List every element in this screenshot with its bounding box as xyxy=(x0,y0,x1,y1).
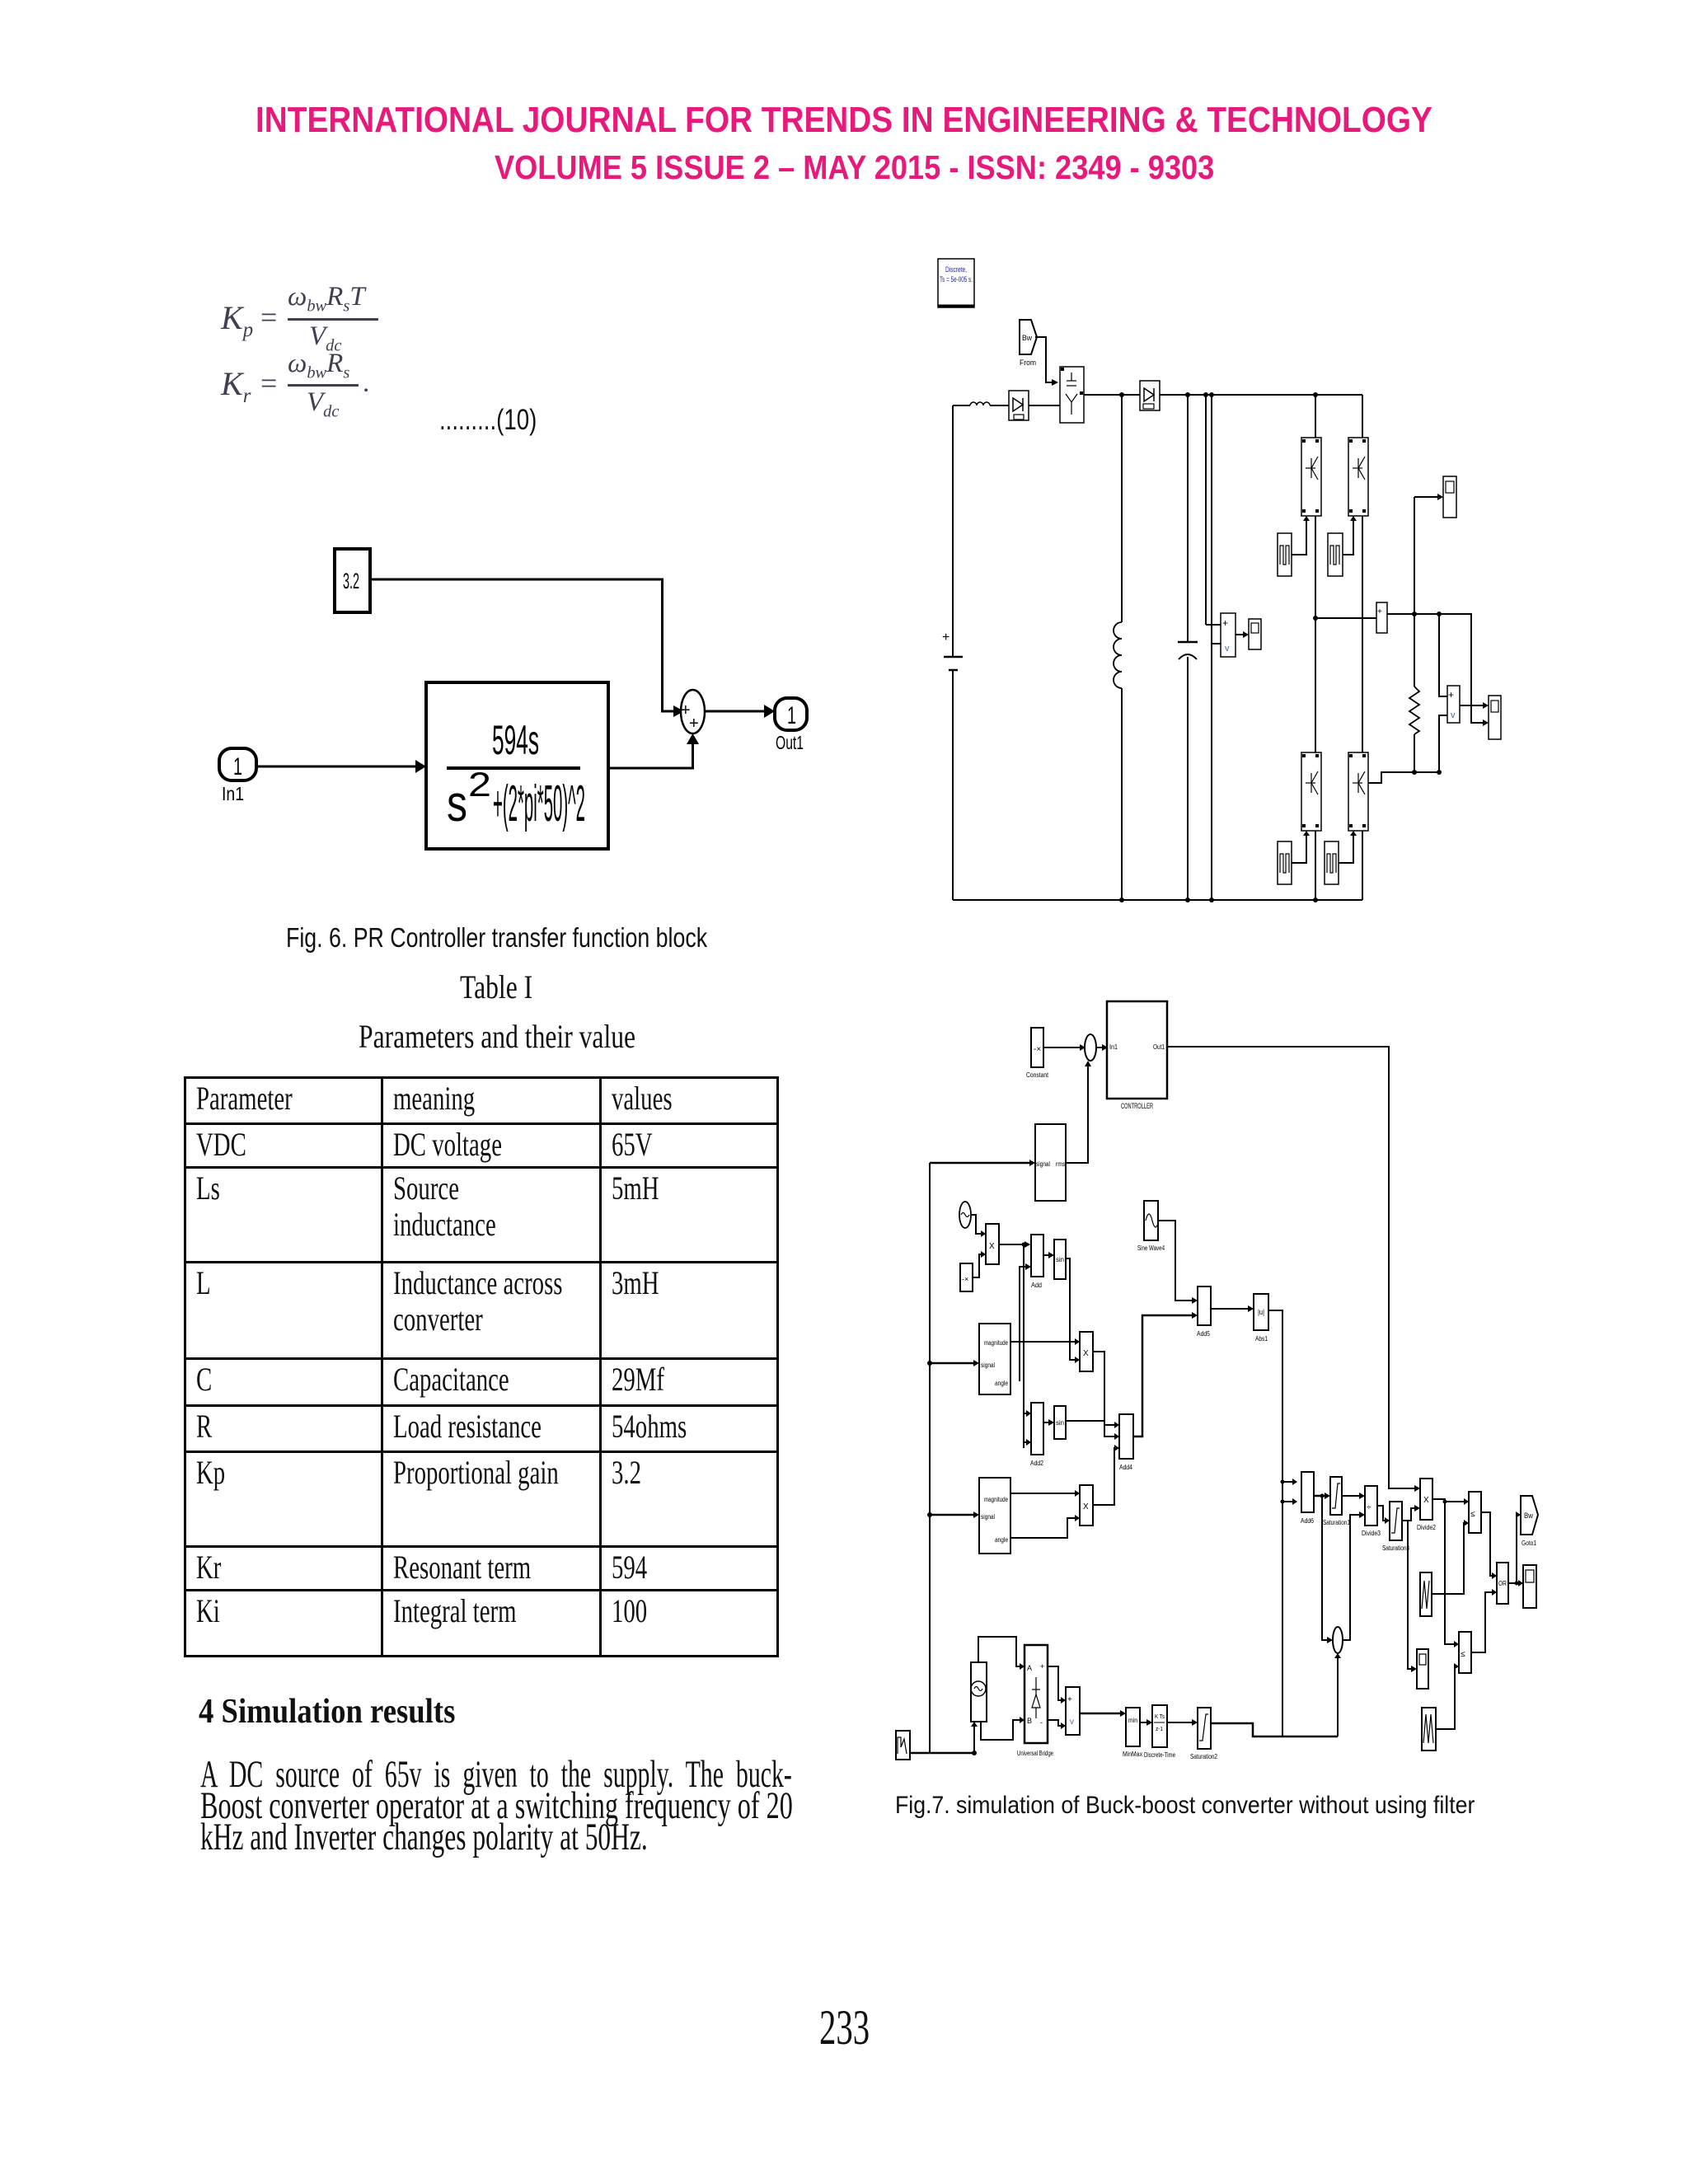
top rail wire xyxy=(1084,394,1362,396)
header line 2 xyxy=(495,151,1310,185)
bottom wire from input port xyxy=(910,1752,974,1755)
feedback branch down to sum2 xyxy=(1322,1496,1327,1640)
goto tag Bw xyxy=(1521,1496,1538,1547)
minmax block xyxy=(1123,1708,1142,1758)
wire From to mosfet gate xyxy=(1035,337,1052,382)
load resistor R xyxy=(1409,687,1419,734)
svg-text:2: 2 xyxy=(468,765,491,804)
svg-text:Saturation2: Saturation2 xyxy=(1190,1753,1217,1760)
pulse generator PG1 xyxy=(1278,533,1292,576)
sine wave4 block xyxy=(1137,1201,1165,1252)
svg-text:≤: ≤ xyxy=(1470,1510,1475,1519)
add1 block xyxy=(1031,1235,1043,1289)
current measurement block xyxy=(1376,602,1387,633)
page number xyxy=(819,2003,893,2052)
svg-text:MinMax: MinMax xyxy=(1123,1750,1142,1758)
wire product2 to add4 xyxy=(1093,1352,1114,1425)
wire from constant 3.2 to sum xyxy=(370,579,673,711)
scope1 xyxy=(1249,619,1261,649)
wire add6 to saturation1 xyxy=(1314,1495,1325,1497)
svg-text:z-1: z-1 xyxy=(1156,1727,1163,1732)
svg-text:A: A xyxy=(1027,1664,1032,1672)
wire vmeas2 minus branch xyxy=(1439,715,1447,772)
voltage measurement block V3 xyxy=(1066,1687,1080,1735)
igbt top-left xyxy=(1301,438,1321,516)
svg-text:Add: Add xyxy=(1031,1282,1042,1289)
wire sine wave4 to add5 xyxy=(1158,1221,1192,1301)
wire angle1 up to add1 xyxy=(1020,1267,1025,1381)
wire PG3 to igbt gate xyxy=(1292,836,1306,863)
svg-text:In1: In1 xyxy=(222,783,244,804)
OR block xyxy=(1497,1563,1508,1604)
wire divide3 to saturation3 xyxy=(1377,1506,1385,1521)
repeating sequence source 2 xyxy=(1422,1708,1436,1750)
igbt bottom-left xyxy=(1301,752,1321,831)
Fig 7 caption xyxy=(895,1793,1548,1818)
CONTROLLER block xyxy=(1107,1001,1167,1110)
wire rms to sum bottom xyxy=(1066,1066,1088,1163)
Fig 7 upper circuit (buck-boost + inverter power stage) xyxy=(890,247,1624,915)
wire relational1 down to OR xyxy=(1481,1512,1492,1576)
wire abs down the long vertical xyxy=(1268,1310,1282,1736)
wire saturation3 to divide2 xyxy=(1402,1508,1414,1521)
svg-text:Ts = 5e-005 s.: Ts = 5e-005 s. xyxy=(940,275,973,284)
svg-text:signal: signal xyxy=(1036,1160,1050,1168)
divide3 block xyxy=(1362,1486,1381,1537)
header line 1 xyxy=(256,102,1592,138)
scope2 top right xyxy=(1443,476,1456,518)
svg-text:Add6: Add6 xyxy=(1301,1517,1314,1525)
output port Out1 xyxy=(775,698,807,730)
discrete-time integrator block xyxy=(1144,1705,1175,1759)
add6 block xyxy=(1301,1472,1314,1525)
wire rail corner to igbt top-right xyxy=(1362,395,1363,438)
saturation1 block xyxy=(1323,1477,1350,1526)
svg-text:-: - xyxy=(1040,1718,1043,1727)
wire rail to rms input xyxy=(930,1162,1029,1165)
svg-text:Saturation3: Saturation3 xyxy=(1382,1544,1409,1552)
add2 block xyxy=(1030,1403,1043,1467)
stubs into add2 xyxy=(1024,1413,1026,1414)
magnitude-angle block 2 xyxy=(979,1478,1010,1554)
wire relational2 to OR bottom input xyxy=(1471,1592,1492,1652)
pulse generator PG2 xyxy=(1328,533,1343,576)
relational1 block xyxy=(1469,1492,1481,1533)
series diode D2 on rail xyxy=(1140,381,1160,410)
voltage measurement block V2 xyxy=(1447,686,1460,723)
igbt bottom-right xyxy=(1348,752,1368,831)
svg-text:Sine Wave4: Sine Wave4 xyxy=(1137,1244,1165,1252)
wire PG1 to igbt gate xyxy=(1292,521,1306,555)
svg-text:+: + xyxy=(1222,617,1228,629)
dc source battery xyxy=(942,405,963,900)
wire rail to igbt top-left xyxy=(1315,395,1316,438)
svg-text:signal: signal xyxy=(981,1361,995,1369)
sin1 block xyxy=(1054,1240,1066,1279)
From tag Bw xyxy=(1020,320,1037,367)
equation Kp xyxy=(221,298,253,342)
svg-text:-×: -× xyxy=(1034,1045,1041,1054)
svg-text:1: 1 xyxy=(787,702,796,729)
h-bridge right leg xyxy=(1362,516,1363,752)
stubs into add6 xyxy=(1282,1481,1292,1483)
series diode D1 xyxy=(1009,391,1029,420)
wire to scope2 top xyxy=(1414,496,1437,498)
svg-text:-×: -× xyxy=(962,1275,968,1283)
wire sum to controller xyxy=(1096,1047,1102,1048)
svg-text:Constant: Constant xyxy=(1026,1071,1049,1079)
wire sin2 to add4 xyxy=(1066,1421,1114,1436)
svg-text:sin: sin xyxy=(1056,1419,1064,1427)
svg-text:1: 1 xyxy=(233,753,242,780)
svg-text:Add2: Add2 xyxy=(1030,1460,1043,1467)
equation Kr xyxy=(221,364,251,408)
wire sum to Out1 xyxy=(705,710,764,713)
repeating sequence source 1 xyxy=(1420,1572,1432,1616)
wire sum2 up to divide3 second input xyxy=(1343,1515,1359,1640)
svg-text:X: X xyxy=(989,1242,995,1251)
wire angle2 to product3 xyxy=(1010,1518,1075,1538)
svg-text:÷: ÷ xyxy=(1367,1503,1371,1512)
load rail vertical xyxy=(1414,497,1415,687)
svg-text:X: X xyxy=(1083,1349,1089,1358)
input port In1 xyxy=(219,748,256,780)
paragraph line 2 xyxy=(200,1787,1065,1825)
saturation2 block xyxy=(1190,1708,1217,1760)
wire minmax to discrete-time xyxy=(1140,1722,1146,1723)
wire PG4 to igbt gate xyxy=(1339,836,1353,863)
svg-text:Add5: Add5 xyxy=(1197,1330,1210,1338)
product2 block xyxy=(1080,1332,1093,1371)
svg-text:v: v xyxy=(1225,644,1230,654)
wire rail to magnitude1 xyxy=(930,1362,973,1365)
sin2 block xyxy=(1054,1406,1066,1439)
constant2 block xyxy=(960,1263,973,1291)
shunt capacitor branch xyxy=(1178,395,1198,900)
svg-text:Bw: Bw xyxy=(1524,1511,1533,1520)
scope5 block xyxy=(1417,1649,1428,1689)
svg-text:min: min xyxy=(1128,1717,1137,1724)
wire product3 to add4 bottom xyxy=(1093,1448,1117,1505)
divide2 block xyxy=(1417,1479,1436,1531)
sum block xyxy=(681,690,705,733)
pulse generator PG3 xyxy=(1278,841,1292,884)
sine source circle xyxy=(959,1202,971,1228)
Fig 6 caption xyxy=(286,924,806,951)
junction dots xyxy=(1119,392,1442,902)
product3 block xyxy=(1080,1485,1093,1526)
wire current meas output node xyxy=(1387,614,1483,723)
svg-text:Out1: Out1 xyxy=(1153,1043,1165,1051)
transfer function block xyxy=(426,682,608,849)
wire constant2 to product1 xyxy=(973,1254,981,1277)
svg-text:X: X xyxy=(1423,1496,1429,1505)
constant block 3.2 xyxy=(335,549,370,612)
powergui block xyxy=(938,259,974,307)
magnitude-angle block 1 xyxy=(979,1324,1010,1394)
section heading xyxy=(199,1694,492,1729)
wire sin1 down to product2 xyxy=(1066,1258,1075,1360)
universal bridge block xyxy=(1017,1645,1053,1757)
svg-text:signal: signal xyxy=(981,1513,995,1521)
wire PG2 to igbt gate xyxy=(1343,521,1353,555)
wire discrete-time to saturation2 xyxy=(1167,1722,1192,1723)
svg-text:Goto1: Goto1 xyxy=(1522,1540,1536,1547)
wire divide2 output node xyxy=(1432,1499,1454,1644)
wire bridge plus to vmeas3 xyxy=(1048,1666,1061,1700)
svg-text:v: v xyxy=(1070,1718,1074,1727)
svg-text:+: + xyxy=(1448,689,1454,701)
load bottom wire xyxy=(1368,772,1439,783)
svg-text:sin: sin xyxy=(1056,1256,1064,1263)
svg-text:Bw: Bw xyxy=(1022,334,1032,342)
wire add2 to sin2 xyxy=(1043,1422,1048,1423)
svg-text:magnitude: magnitude xyxy=(984,1496,1008,1503)
wire transfer function to sum (bottom input) xyxy=(608,744,693,768)
svg-text:v: v xyxy=(1451,710,1456,720)
mosfet block xyxy=(1060,367,1084,423)
svg-text:Universal Bridge: Universal Bridge xyxy=(1017,1750,1053,1757)
svg-text:3.2: 3.2 xyxy=(343,569,359,593)
voltage measurement block V1 xyxy=(1221,613,1236,657)
abs block xyxy=(1254,1294,1268,1343)
wire In1 to transfer function xyxy=(256,766,415,768)
svg-text:OR: OR xyxy=(1498,1580,1507,1587)
svg-text:Out1: Out1 xyxy=(776,732,804,753)
wire bridge minus to vmeas3 xyxy=(1048,1720,1061,1726)
scope3 right xyxy=(1489,696,1501,739)
wire add4 up to add5 xyxy=(1133,1315,1192,1436)
igbt bottoms to bottom rail xyxy=(1315,831,1316,900)
igbt top-right xyxy=(1348,438,1368,516)
svg-text:≤: ≤ xyxy=(1461,1650,1465,1659)
svg-text:+: + xyxy=(1040,1662,1044,1671)
add4 block xyxy=(1119,1414,1133,1471)
pulse generator PG4 xyxy=(1325,841,1339,884)
scope5 tap wire xyxy=(1408,1521,1411,1669)
sum block S1 xyxy=(1085,1034,1096,1061)
paragraph line 1 xyxy=(200,1755,1132,1794)
wire constant to sum xyxy=(1043,1047,1080,1048)
svg-text:Abs1: Abs1 xyxy=(1255,1335,1268,1343)
wire rail to magnitude2 xyxy=(930,1514,973,1516)
svg-text:s: s xyxy=(447,776,467,832)
wire bottom rail up into sum2 xyxy=(1337,1658,1339,1736)
wire saturation2 along bottom to sum2 xyxy=(1211,1723,1338,1736)
ac source block xyxy=(971,1662,987,1722)
wire ac source to bridge B xyxy=(981,1720,1020,1740)
wire magnitude2 to product3 xyxy=(1010,1493,1075,1494)
voltage measurement branch wires xyxy=(1206,395,1221,900)
rms block xyxy=(1035,1124,1066,1201)
sum2 block xyxy=(1333,1627,1343,1653)
wire product1 to add1 and long branch down xyxy=(999,1244,1024,1448)
wire V2 to scope3 xyxy=(1460,705,1483,706)
series inductor Ls xyxy=(953,402,1009,405)
wire OR to scope6 xyxy=(1517,1582,1518,1584)
Table I title xyxy=(460,971,552,1004)
svg-text:Divide3: Divide3 xyxy=(1362,1530,1381,1537)
svg-text:magnitude: magnitude xyxy=(984,1339,1008,1347)
wire controller output to divide2 xyxy=(1167,1047,1414,1488)
svg-text:|u|: |u| xyxy=(1258,1308,1264,1316)
wire OR to goto tag xyxy=(1508,1515,1517,1583)
svg-text:In1: In1 xyxy=(1109,1043,1118,1051)
wire add5 to abs xyxy=(1211,1308,1248,1310)
svg-text:594s: 594s xyxy=(492,717,539,763)
svg-text:angle: angle xyxy=(995,1380,1008,1387)
wire repseq2 to relational2 xyxy=(1436,1666,1456,1729)
wire V1 to scope1 xyxy=(1236,634,1243,635)
paragraph line 3 xyxy=(200,1818,868,1857)
add5 block xyxy=(1197,1286,1211,1338)
wire bridge left leg to current measurement xyxy=(1315,617,1376,619)
wire repseq1 to relational1 xyxy=(1432,1523,1465,1594)
svg-text:Divide2: Divide2 xyxy=(1417,1524,1436,1531)
left rail vertical xyxy=(929,1163,931,1753)
svg-text:Discrete,: Discrete, xyxy=(945,265,967,274)
svg-text:Saturation1: Saturation1 xyxy=(1323,1519,1350,1526)
svg-text:rms: rms xyxy=(1056,1160,1065,1168)
bottom rail wire xyxy=(953,899,1362,901)
svg-text:+: + xyxy=(689,715,699,733)
wire vmeas2 plus branch xyxy=(1439,614,1447,696)
wire bottom rail up into ac source xyxy=(973,1727,975,1753)
svg-text:CONTROLLER: CONTROLLER xyxy=(1121,1102,1153,1110)
wire saturation1 to divide3 xyxy=(1342,1495,1359,1497)
Fig 6 simulink diagram xyxy=(181,527,841,923)
shunt inductor branch xyxy=(1114,395,1122,900)
wire ac source to bridge A xyxy=(978,1637,1020,1666)
input port block bottom left xyxy=(896,1731,910,1760)
svg-text:B: B xyxy=(1027,1717,1032,1725)
svg-text:angle: angle xyxy=(995,1536,1008,1544)
svg-text:X: X xyxy=(1083,1502,1089,1511)
svg-text:+: + xyxy=(1067,1695,1072,1704)
wire diode D1 to mosfet xyxy=(1029,405,1060,406)
junction dots xyxy=(927,1243,1519,1756)
saturation3 block xyxy=(1382,1502,1409,1552)
svg-text:+: + xyxy=(1377,607,1382,616)
product1 block xyxy=(986,1224,999,1264)
constant block xyxy=(1026,1028,1049,1079)
h-bridge left leg xyxy=(1315,516,1316,752)
equation number (10) xyxy=(439,405,563,434)
scope6 block xyxy=(1523,1565,1536,1608)
wire sine source to product1 xyxy=(971,1215,981,1234)
svg-text:+: + xyxy=(942,630,949,644)
wire magnitude1 to product2 xyxy=(1010,1341,1075,1343)
Fig 7 lower diagram (controller subsystem) xyxy=(890,997,1558,1772)
wire vmeas3 to minmax xyxy=(1080,1713,1120,1715)
svg-text:K Ts: K Ts xyxy=(1155,1714,1165,1720)
svg-text:Discrete-Time: Discrete-Time xyxy=(1144,1751,1175,1759)
svg-text:From: From xyxy=(1020,359,1036,367)
relational2 block xyxy=(1459,1632,1471,1673)
wire add1 to sin1 xyxy=(1043,1254,1048,1256)
svg-text:+(2*pi*50)^2: +(2*pi*50)^2 xyxy=(493,776,585,832)
svg-text:Add4: Add4 xyxy=(1119,1464,1132,1471)
